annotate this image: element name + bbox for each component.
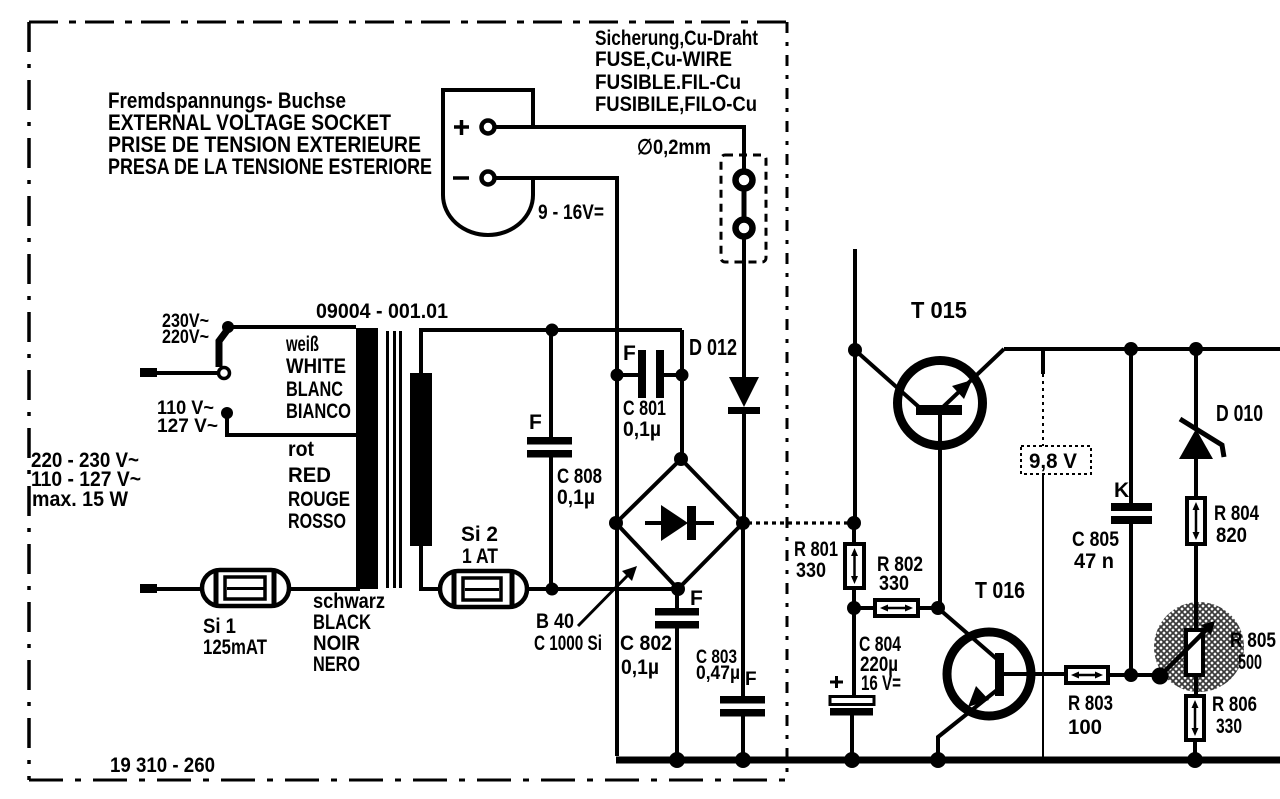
svg-text:R 806: R 806 (1212, 693, 1257, 716)
svg-text:rot: rot (288, 438, 314, 461)
svg-text:330: 330 (796, 559, 826, 582)
plus sign C804 (830, 676, 843, 688)
node C808 bottom (546, 583, 559, 596)
wire mains to fuse Si1 (140, 587, 203, 591)
svg-text:PRESA DE LA TENSIONE ESTERIORE: PRESA DE LA TENSIONE ESTERIORE (108, 154, 432, 179)
node 230V tap (222, 321, 234, 333)
selector open contact (219, 368, 230, 379)
wire plus terminal to cu-wire fuse (495, 127, 744, 169)
svg-text:D 010: D 010 (1216, 400, 1263, 426)
svg-text:K: K (1114, 479, 1129, 502)
measurement tick 9,8V (1041, 351, 1045, 374)
node T015 base tap (848, 343, 862, 357)
svg-text:9,8 V: 9,8 V (1029, 450, 1077, 473)
capacitor C801 (617, 350, 682, 398)
page border top (29, 21, 789, 24)
svg-text:Si 2: Si 2 (461, 523, 498, 546)
svg-text:F: F (529, 411, 542, 434)
capacitor C802 (655, 589, 699, 760)
svg-text:NOIR: NOIR (313, 632, 360, 655)
svg-text:820: 820 (1216, 524, 1247, 547)
svg-text:ROSSO: ROSSO (288, 510, 346, 533)
measurement dotted line upper (1042, 374, 1044, 446)
node bridge top (674, 452, 688, 466)
capacitor C804 electrolytic (830, 608, 874, 760)
resistor R804 (1187, 498, 1205, 630)
minus sign (453, 176, 469, 180)
wire 110V tap to primary (227, 413, 356, 435)
node C808 top (546, 324, 559, 337)
capacitor C805 (1111, 349, 1152, 675)
ground rail (616, 757, 1280, 764)
node R803 C805 junction (1124, 668, 1138, 682)
svg-text:330: 330 (879, 572, 909, 595)
cu-wire fuse link wire (742, 190, 747, 218)
potentiometer R805 shaded circle (1154, 602, 1244, 692)
node R802 right (931, 601, 945, 615)
svg-text:19 310 - 260: 19 310 - 260 (110, 754, 215, 777)
wire 230V tap to primary (228, 325, 356, 329)
svg-text:FUSE,Cu-WIRE: FUSE,Cu-WIRE (595, 48, 732, 71)
label mains ratings (31, 449, 141, 511)
transformer primary winding (356, 328, 378, 589)
svg-text:NERO: NERO (313, 653, 360, 676)
external voltage socket outline (443, 90, 533, 235)
svg-text:schwarz: schwarz (313, 590, 385, 613)
svg-text:BLANC: BLANC (286, 378, 343, 401)
wire C801 right down to bridge top (680, 330, 684, 459)
svg-text:WHITE: WHITE (286, 355, 346, 378)
svg-text:Si 1: Si 1 (203, 615, 236, 638)
svg-text:weiß: weiß (285, 333, 319, 356)
terminal minus (482, 172, 495, 185)
node rail C804 (844, 752, 860, 768)
label black wire (313, 590, 385, 676)
svg-text:D 012: D 012 (689, 334, 737, 360)
cu-wire fuse bottom terminal (736, 220, 753, 237)
svg-text:09004 - 001.01: 09004 - 001.01 (316, 300, 448, 323)
cu-wire fuse dashed box (721, 155, 766, 262)
node bridge right (736, 516, 750, 530)
svg-text:T 016: T 016 (975, 577, 1025, 603)
page border left (27, 22, 31, 780)
svg-text:ROUGE: ROUGE (288, 488, 350, 511)
node rail C805 (1124, 342, 1138, 356)
svg-text:0,47µ: 0,47µ (696, 663, 740, 684)
node rail C802 (669, 752, 685, 768)
arrow pointing to bridge (578, 566, 637, 626)
transformer core (388, 331, 401, 588)
page border bottom (29, 779, 786, 782)
wire fuse Si1 to primary (289, 587, 360, 591)
potentiometer R805 element (1160, 600, 1215, 676)
node rail T016 emitter (930, 752, 946, 768)
svg-text:FUSIBLE.FIL-Cu: FUSIBLE.FIL-Cu (595, 71, 741, 94)
node pot wiper (1152, 668, 1169, 685)
svg-text:0,1µ: 0,1µ (623, 418, 661, 441)
wire junction to pot wiper (1131, 673, 1160, 677)
mains input stub lower (140, 584, 157, 593)
svg-text:BIANCO: BIANCO (286, 400, 351, 423)
wire secondary top to rectifier node (421, 330, 682, 373)
wire minus terminal down to C801 node (495, 178, 617, 756)
fuse Si1 body (202, 570, 289, 606)
transistor T016 (938, 608, 1066, 758)
mains input stub upper (140, 368, 157, 377)
svg-text:220V~: 220V~ (162, 327, 209, 348)
svg-text:C 1000 Si: C 1000 Si (534, 632, 602, 655)
svg-text:FUSIBILE,FILO-Cu: FUSIBILE,FILO-Cu (595, 93, 757, 116)
svg-text:C 801: C 801 (623, 397, 666, 420)
resistor R802 (854, 600, 938, 616)
wire mains to selector contact (140, 371, 217, 375)
svg-text:16 V=: 16 V= (861, 672, 901, 695)
label red wire (288, 438, 350, 533)
selector bar to 230V tap (219, 329, 228, 367)
svg-text:100: 100 (1068, 716, 1102, 739)
wire T015 collector rail (1004, 347, 1280, 351)
bridge rectifier B40 diamond (616, 459, 743, 589)
node 110V tap (221, 407, 233, 419)
wire plus feed vertical (853, 249, 857, 523)
node rail R806 (1187, 752, 1203, 768)
node C801 right (676, 369, 689, 382)
wire fuse to diode D012 (742, 238, 746, 377)
resistor R806 (1186, 675, 1204, 760)
node rail D010 (1189, 342, 1203, 356)
svg-text:T 015: T 015 (911, 297, 967, 323)
wire plus rail dotted to R801 node (748, 521, 849, 524)
svg-text:R 804: R 804 (1214, 502, 1259, 525)
transformer secondary winding (410, 373, 432, 546)
svg-text:R 803: R 803 (1068, 692, 1113, 715)
resistor R803 (1066, 667, 1131, 683)
svg-text:F: F (745, 669, 757, 690)
svg-text:127 V~: 127 V~ (157, 416, 218, 437)
capacitor C808 (527, 330, 572, 589)
svg-text:∅0,2mm: ∅0,2mm (637, 136, 711, 159)
capacitor C803 (720, 523, 765, 760)
cu-wire fuse top terminal (736, 172, 753, 189)
svg-text:47 n: 47 n (1074, 550, 1114, 573)
svg-text:RED: RED (288, 464, 331, 487)
fuse Si2 body (440, 571, 527, 607)
svg-text:0,1µ: 0,1µ (557, 486, 595, 509)
svg-text:F: F (690, 587, 703, 610)
svg-text:C 808: C 808 (557, 465, 602, 488)
wire secondary bottom to fuse Si2 (421, 546, 442, 589)
measurement line to ground (1042, 474, 1044, 757)
svg-text:max. 15 W: max. 15 W (32, 488, 128, 511)
svg-text:0,1µ: 0,1µ (621, 656, 659, 679)
svg-text:1 AT: 1 AT (462, 545, 498, 568)
terminal plus (482, 121, 495, 134)
plus sign (454, 120, 469, 135)
node rail C803 (735, 752, 751, 768)
node bridge bottom (671, 582, 685, 596)
resistor R801 (845, 523, 864, 608)
svg-text:BLACK: BLACK (313, 611, 371, 634)
label white wire (285, 333, 351, 423)
note: external voltage socket heading (108, 88, 432, 179)
svg-text:Sicherung,Cu-Draht: Sicherung,Cu-Draht (595, 27, 758, 50)
svg-text:B 40: B 40 (536, 610, 574, 633)
svg-text:R 801: R 801 (794, 538, 838, 561)
svg-text:500: 500 (1238, 651, 1262, 674)
svg-text:R 805: R 805 (1230, 629, 1276, 652)
page border right (786, 22, 789, 780)
wire fuse Si2 to bridge bottom node (527, 587, 678, 591)
svg-text:9 - 16V=: 9 - 16V= (538, 201, 604, 224)
svg-text:C 805: C 805 (1072, 528, 1119, 551)
note: fuse cu-wire heading (595, 27, 758, 116)
svg-text:F: F (623, 342, 636, 365)
svg-text:125mAT: 125mAT (203, 636, 267, 659)
diode D012 (728, 377, 760, 523)
node R801 bottom (847, 601, 861, 615)
svg-text:C 802: C 802 (620, 632, 672, 655)
transistor T015 (855, 349, 1004, 608)
node bridge left (609, 516, 623, 530)
node R801 top (847, 516, 861, 530)
node C801 left (611, 369, 624, 382)
zener diode D010 (1179, 349, 1224, 498)
measurement box 9,8V (1021, 446, 1091, 474)
svg-text:330: 330 (1216, 715, 1242, 738)
